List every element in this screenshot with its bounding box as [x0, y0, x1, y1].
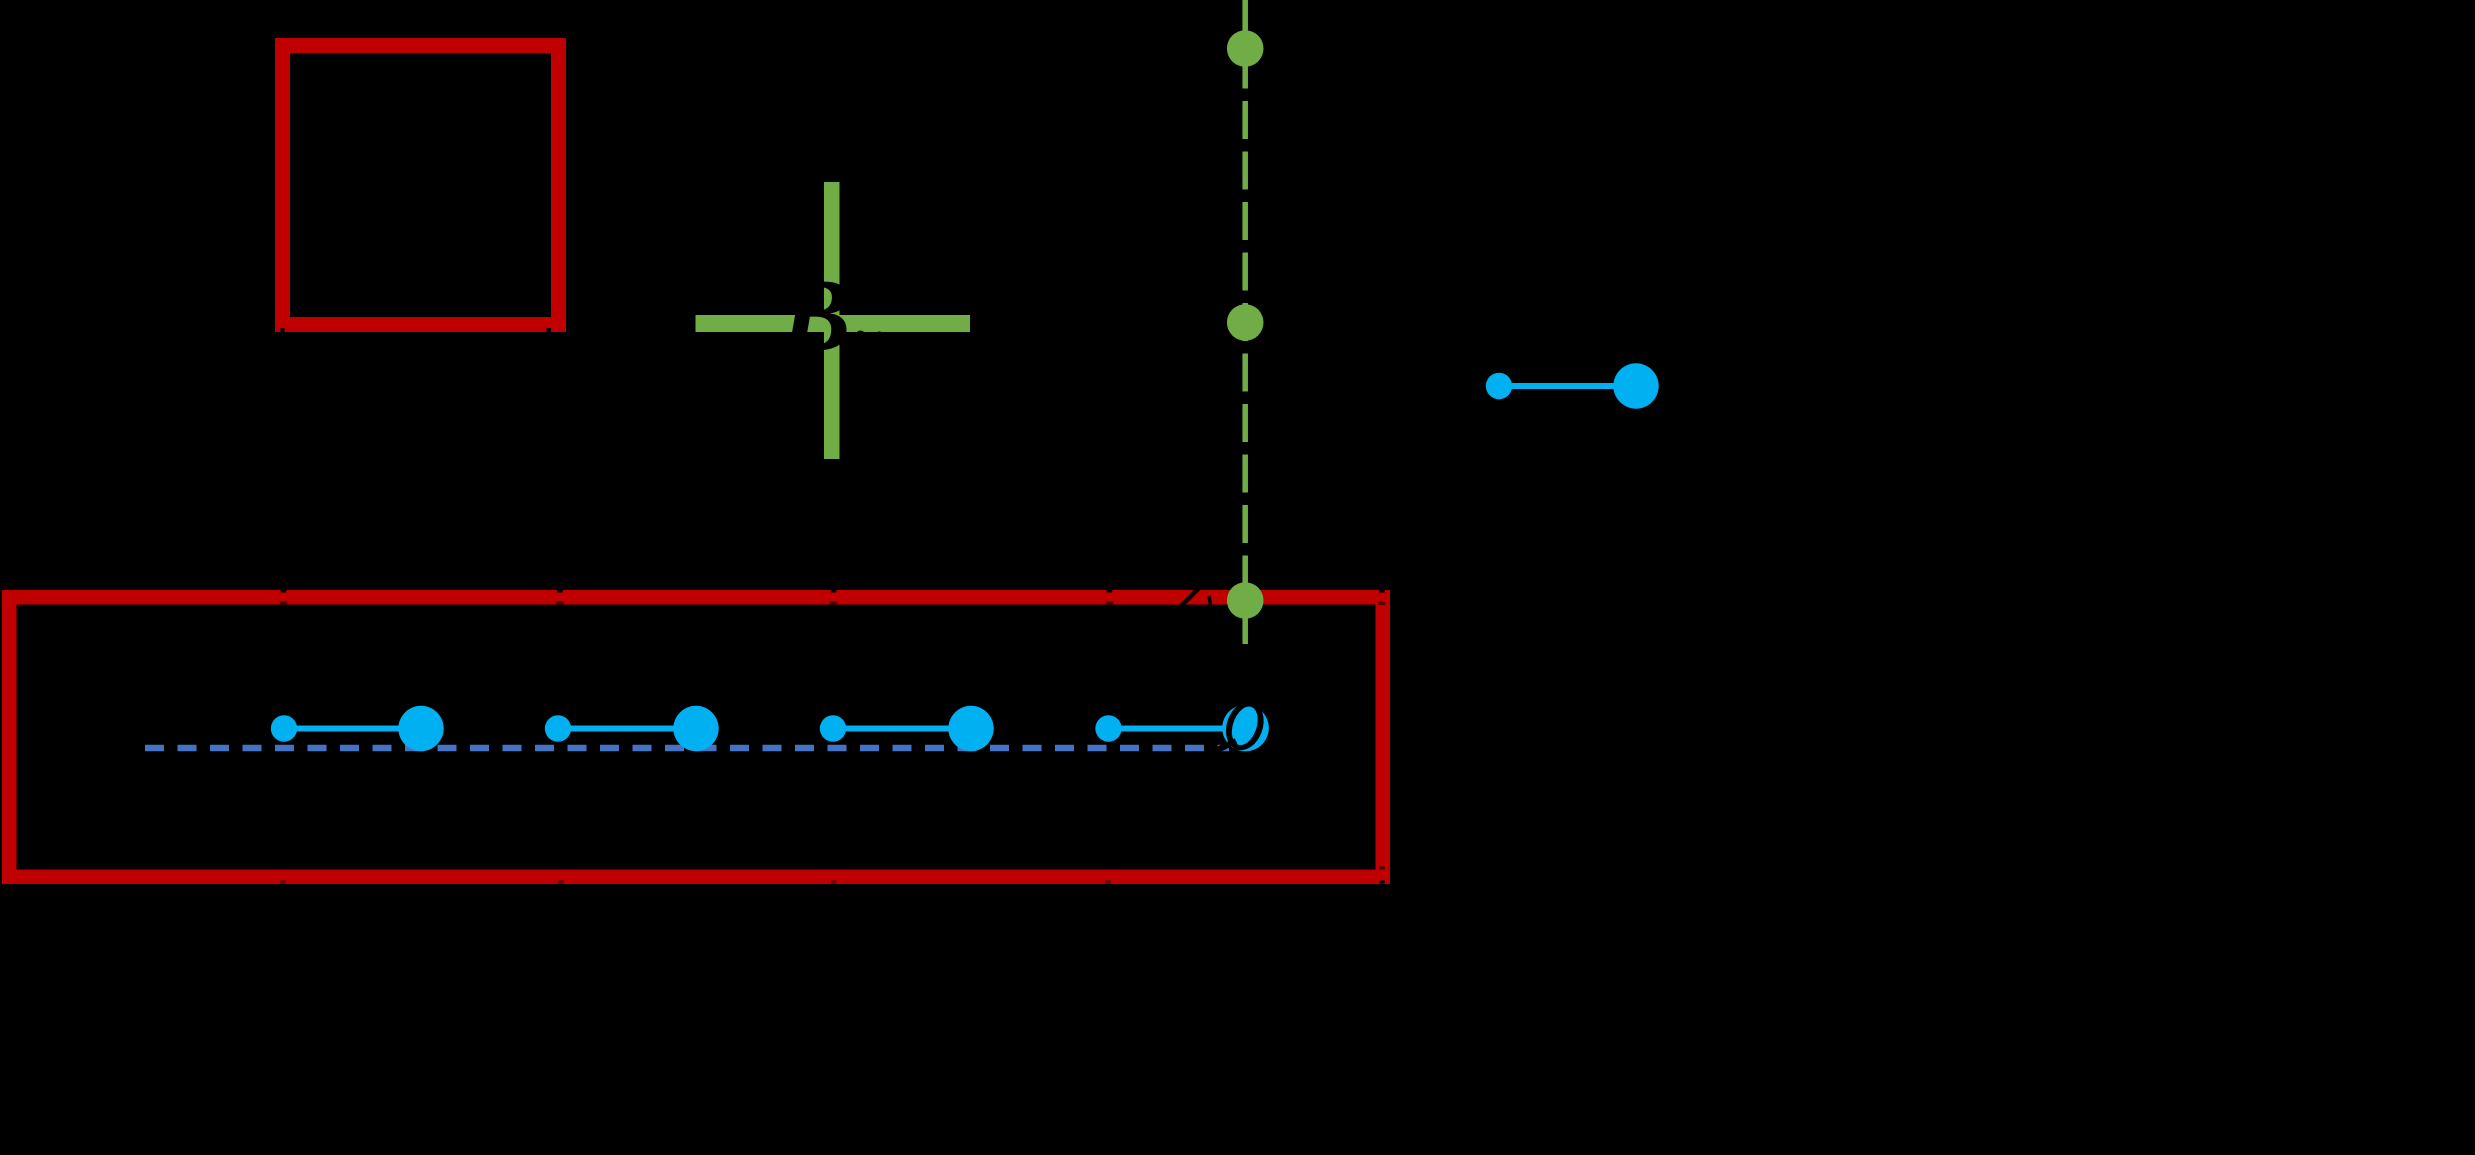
free motif big dot	[1613, 363, 1658, 408]
green cross horizontal bar	[696, 315, 971, 332]
black slash fragment on red border	[1176, 588, 1199, 611]
free motif small dot	[1486, 373, 1512, 399]
motif 4 link line	[1109, 726, 1244, 732]
subscript bite 1	[856, 331, 866, 341]
motif 4 big dot	[1222, 705, 1269, 752]
motif 2 big dot	[673, 706, 718, 751]
green node dot 2	[1227, 304, 1264, 341]
motif 4 small dot	[1095, 715, 1121, 741]
black stroke fragment on red border	[1209, 596, 1212, 611]
guide line nick 2 bottom border	[558, 867, 564, 884]
label tail stroke over dash	[1211, 741, 1236, 753]
green node dot 1	[1227, 30, 1264, 67]
green cross vertical bar	[824, 182, 840, 459]
guide line nick 4 top border	[1106, 590, 1114, 606]
blue dashed trajectory line	[145, 745, 1229, 752]
motif 2 small dot	[545, 715, 571, 741]
motif 1 small dot	[271, 715, 297, 741]
guide line nick 2 top border	[556, 590, 564, 606]
green node dot 3	[1227, 582, 1264, 619]
motif 2 link line	[558, 726, 696, 732]
guide line nick 3 top border	[830, 590, 838, 606]
guide line nick 1 top border	[280, 590, 288, 606]
red rectangle (bottom)	[9, 597, 1383, 877]
guide line nick 5 top border	[1378, 590, 1386, 606]
motif 3 small dot	[820, 715, 846, 741]
motif 1 big dot	[398, 706, 443, 751]
motif 1 link line	[284, 726, 421, 732]
green dashed axis line	[1242, 0, 1248, 646]
motif 3 big dot	[948, 706, 993, 751]
guide line nick 4 bottom border	[1105, 867, 1111, 884]
motif 3 link line	[833, 726, 971, 732]
red square (top left)	[283, 46, 559, 325]
guide line nick 3 bottom border	[831, 867, 837, 884]
guide line nick 1 bottom border	[280, 867, 286, 884]
black notch left under square	[281, 328, 285, 334]
black notch right under square	[547, 328, 552, 334]
label upsilon ring (black italic 0 over motif 4 big dot)	[1220, 696, 1270, 755]
free motif link line (right)	[1499, 383, 1636, 389]
svg-text:B: B	[780, 257, 851, 374]
subscript bite 2	[876, 332, 884, 340]
guide line nick 5 bottom border	[1379, 867, 1385, 884]
